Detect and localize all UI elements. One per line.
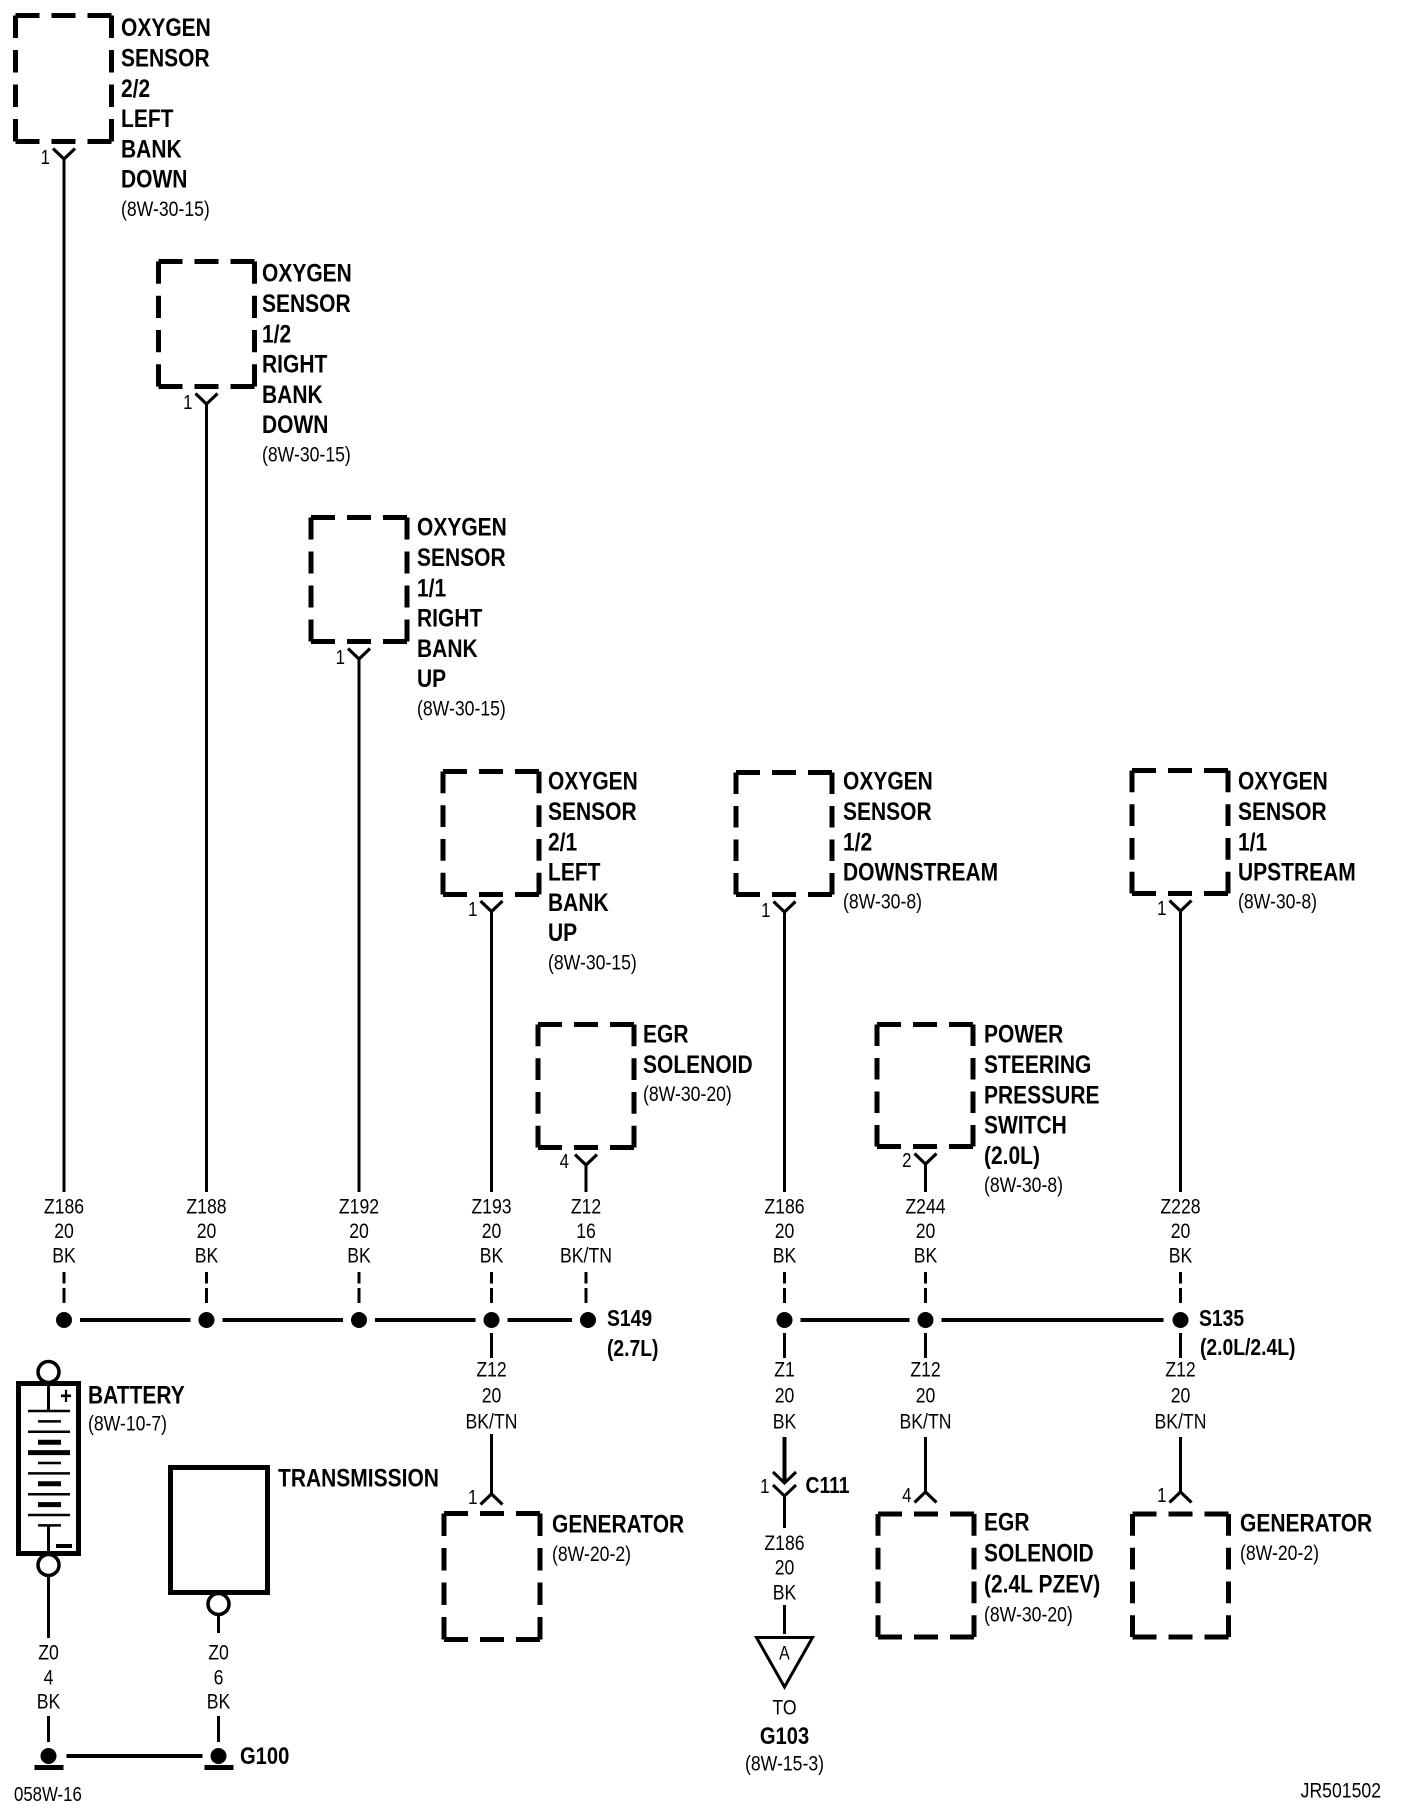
- svg-text:1/2: 1/2: [843, 828, 872, 856]
- EGR solenoid 2.4L PZEV label: [984, 1508, 1100, 1627]
- svg-text:20: 20: [54, 1220, 74, 1244]
- connector at oxygen sensor 2/1 left bank up: [481, 901, 503, 912]
- power steering pressure switch label: [984, 1020, 1099, 1197]
- connector at oxygen sensor 1/1 upstream: [1170, 901, 1192, 912]
- oxygen sensor 1/2 right bank down label: [262, 259, 352, 467]
- wire Z186 below C111: [783, 1496, 786, 1528]
- svg-text:Z186: Z186: [44, 1195, 84, 1219]
- svg-text:(8W-20-2): (8W-20-2): [1240, 1541, 1319, 1565]
- svg-text:4: 4: [44, 1666, 54, 1690]
- svg-text:POWER: POWER: [984, 1020, 1064, 1048]
- connector at EGR solenoid: [575, 1155, 597, 1166]
- svg-text:SENSOR: SENSOR: [1238, 797, 1327, 825]
- connector at power steering pressure switch: [915, 1154, 937, 1165]
- svg-text:Z186: Z186: [764, 1532, 804, 1556]
- wire segment Z12 to generator below bus: [1179, 1333, 1182, 1358]
- sheet number 058W-16: [14, 1783, 82, 1806]
- svg-text:OXYGEN: OXYGEN: [1238, 767, 1328, 795]
- svg-text:STEERING: STEERING: [984, 1050, 1091, 1078]
- svg-text:1: 1: [1157, 1484, 1166, 1507]
- wire Z186 from oxygen sensor 1/2 downstream: [783, 912, 786, 1192]
- generator (left) label: [552, 1510, 684, 1566]
- connector at oxygen sensor 1/2 downstream: [774, 902, 796, 913]
- svg-text:6: 6: [214, 1666, 224, 1690]
- wire Z12 down to EGR solenoid 2.4L: [924, 1437, 927, 1492]
- svg-text:(8W-30-20): (8W-30-20): [643, 1083, 732, 1107]
- junction dot at Z193: [484, 1312, 500, 1328]
- svg-text:BK: BK: [195, 1244, 219, 1268]
- svg-text:1/1: 1/1: [417, 574, 446, 602]
- svg-text:BK: BK: [347, 1244, 371, 1268]
- pin 1 of oxygen sensor 1/1 upstream: [1157, 897, 1166, 920]
- svg-text:+: +: [60, 1382, 72, 1409]
- pin 4 label EGR solenoid 2.4L: [902, 1484, 911, 1507]
- wire Z0 from transmission: [217, 1615, 220, 1633]
- wire Z193 from oxygen sensor 2/1 left bank up: [490, 912, 493, 1193]
- svg-text:2/2: 2/2: [121, 74, 150, 102]
- node TO G103 label: [745, 1696, 824, 1776]
- svg-text:(2.0L): (2.0L): [984, 1141, 1040, 1169]
- connector at oxygen sensor 1/1 right bank up: [348, 649, 370, 660]
- svg-text:BK: BK: [207, 1690, 231, 1714]
- battery minus sign: [56, 1544, 72, 1548]
- wire segment Z12 to EGR below bus: [924, 1333, 927, 1358]
- ground G100 symbol: [205, 1748, 234, 1770]
- splice bus S149 wire segments: [80, 1318, 572, 1322]
- svg-text:Z193: Z193: [471, 1195, 511, 1219]
- wire segment to off-page triangle: [783, 1605, 786, 1634]
- svg-text:SENSOR: SENSOR: [417, 543, 506, 571]
- svg-text:(8W-30-20): (8W-30-20): [984, 1603, 1073, 1627]
- svg-text:OXYGEN: OXYGEN: [843, 767, 933, 795]
- in-line connector C111 (double chevron): [773, 1472, 796, 1496]
- svg-text:20: 20: [916, 1220, 936, 1244]
- wire Z0 from battery: [47, 1577, 50, 1638]
- svg-text:1: 1: [760, 1475, 769, 1498]
- svg-text:(8W-30-15): (8W-30-15): [262, 443, 351, 467]
- svg-text:BATTERY: BATTERY: [88, 1381, 185, 1409]
- svg-text:BK: BK: [37, 1690, 61, 1714]
- junction dot at Z186 col 1: [56, 1312, 72, 1328]
- battery internal plates: [28, 1383, 70, 1553]
- splice bus S135 wire segments: [801, 1318, 1164, 1322]
- pin 2 of power steering pressure switch: [902, 1149, 911, 1172]
- svg-text:2/1: 2/1: [548, 828, 577, 856]
- svg-text:Z0: Z0: [38, 1641, 59, 1665]
- svg-text:1: 1: [468, 898, 477, 921]
- transmission terminal circle: [208, 1594, 229, 1615]
- pin 1 label at C111: [760, 1475, 769, 1498]
- oxygen sensor 2/1 left bank up label: [548, 767, 638, 975]
- wire Z244 from power steering pressure switch: [924, 1164, 927, 1192]
- svg-text:(8W-30-15): (8W-30-15): [548, 951, 637, 975]
- splice S149 end dot: [580, 1312, 596, 1328]
- svg-text:DOWN: DOWN: [121, 165, 187, 193]
- pin 1 label generator left: [468, 1486, 477, 1509]
- svg-text:BK: BK: [1169, 1244, 1193, 1268]
- svg-text:G103: G103: [760, 1722, 809, 1749]
- svg-text:TO: TO: [772, 1696, 796, 1720]
- svg-text:(8W-30-8): (8W-30-8): [843, 890, 922, 914]
- svg-text:BK/TN: BK/TN: [900, 1410, 952, 1434]
- svg-text:UP: UP: [417, 664, 446, 692]
- splice S135 end dot: [1173, 1312, 1189, 1328]
- junction dot at Z192: [351, 1312, 367, 1328]
- svg-text:BK/TN: BK/TN: [560, 1244, 612, 1268]
- svg-text:OXYGEN: OXYGEN: [548, 767, 638, 795]
- ground symbol at battery: [35, 1748, 64, 1770]
- svg-text:A: A: [779, 1642, 790, 1664]
- svg-text:Z12: Z12: [571, 1195, 601, 1219]
- wire segment Z186 right into bus: [783, 1272, 786, 1303]
- svg-text:(8W-30-15): (8W-30-15): [121, 197, 210, 221]
- label wire Z12 16 BK/TN: [560, 1195, 612, 1268]
- svg-text:Z1: Z1: [774, 1358, 795, 1382]
- wire segment battery to ground: [47, 1716, 50, 1742]
- wire segment Z188 into bus: [205, 1272, 208, 1303]
- oxygen sensor 1/2 right bank down (dashed box): [159, 262, 255, 387]
- svg-text:16: 16: [576, 1220, 596, 1244]
- EGR solenoid 2.4L PZEV dashed box: [878, 1514, 974, 1637]
- ground G100 label: [240, 1742, 289, 1769]
- svg-text:G100: G100: [240, 1742, 289, 1769]
- svg-text:SENSOR: SENSOR: [262, 289, 351, 317]
- wire Z188 from oxygen sensor 1/2 right bank down: [205, 404, 208, 1192]
- pin 1 of oxygen sensor 1/1 right bank up: [336, 646, 345, 669]
- svg-text:Z192: Z192: [339, 1195, 379, 1219]
- transmission label: [278, 1464, 439, 1492]
- oxygen sensor 2/2 left bank down label: [121, 13, 211, 221]
- EGR solenoid label (left section): [643, 1020, 753, 1107]
- svg-text:SENSOR: SENSOR: [548, 797, 637, 825]
- label wire Z12 20 BK/TN (to EGR 2.4L): [900, 1358, 952, 1434]
- pin 1 label generator right: [1157, 1484, 1166, 1507]
- svg-text:BK: BK: [773, 1410, 797, 1434]
- svg-text:20: 20: [916, 1384, 936, 1408]
- node S149 label: [607, 1307, 658, 1362]
- svg-text:(8W-30-15): (8W-30-15): [417, 697, 506, 721]
- pin 1 of oxygen sensor 2/1 left bank up: [468, 898, 477, 921]
- wire Z1 down to C111: [783, 1437, 787, 1481]
- svg-text:1: 1: [41, 146, 50, 169]
- svg-text:20: 20: [482, 1384, 502, 1408]
- wire segment Z193 into bus: [490, 1272, 493, 1303]
- svg-text:20: 20: [775, 1384, 795, 1408]
- label wire Z186 20 BK (below C111): [764, 1532, 804, 1605]
- node S135 label: [1199, 1307, 1295, 1361]
- svg-text:20: 20: [349, 1220, 369, 1244]
- svg-text:LEFT: LEFT: [121, 104, 173, 132]
- drawing number JR501502: [1301, 1779, 1381, 1803]
- svg-text:GENERATOR: GENERATOR: [1240, 1509, 1372, 1537]
- battery B1 box: [19, 1384, 79, 1554]
- wire Z186 from oxygen sensor 2/2: [63, 159, 66, 1192]
- label wire Z12 20 BK/TN (below S149): [466, 1358, 518, 1434]
- battery B1 terminal circle (top): [38, 1362, 59, 1383]
- svg-text:(8W-30-8): (8W-30-8): [1238, 890, 1317, 914]
- wire segment Z186 into bus: [63, 1272, 66, 1303]
- ground bus wire to G100: [67, 1754, 203, 1758]
- svg-text:Z12: Z12: [910, 1358, 940, 1382]
- svg-text:4: 4: [902, 1484, 911, 1507]
- connector pin 1 at generator (right): [1170, 1492, 1192, 1503]
- svg-text:SOLENOID: SOLENOID: [984, 1539, 1094, 1567]
- svg-text:1: 1: [761, 899, 770, 922]
- label wire Z186 20 BK (col 6): [764, 1195, 804, 1268]
- svg-text:(8W-10-7): (8W-10-7): [88, 1412, 167, 1436]
- svg-text:DOWN: DOWN: [262, 410, 328, 438]
- svg-text:BK: BK: [773, 1244, 797, 1268]
- wire Z192 from oxygen sensor 1/1 right bank up: [358, 659, 361, 1192]
- pin 1 of oxygen sensor 1/2 right bank down: [183, 391, 192, 414]
- svg-text:BK: BK: [480, 1244, 504, 1268]
- svg-text:4: 4: [560, 1150, 569, 1173]
- transmission box: [171, 1468, 268, 1593]
- svg-text:058W-16: 058W-16: [14, 1783, 82, 1806]
- svg-text:BANK: BANK: [262, 380, 323, 408]
- svg-text:Z12: Z12: [1165, 1358, 1195, 1382]
- svg-text:EGR: EGR: [984, 1508, 1030, 1536]
- svg-text:(2.7L): (2.7L): [607, 1337, 658, 1362]
- svg-text:20: 20: [775, 1556, 795, 1580]
- connector at oxygen sensor 1/2 right bank down: [196, 394, 218, 405]
- svg-text:UP: UP: [548, 918, 577, 946]
- battery label: [88, 1381, 185, 1436]
- svg-text:OXYGEN: OXYGEN: [262, 259, 352, 287]
- svg-text:BK/TN: BK/TN: [466, 1410, 518, 1434]
- label wire Z0 4 BK: [37, 1641, 61, 1714]
- svg-text:SENSOR: SENSOR: [121, 44, 210, 72]
- svg-text:S135: S135: [1199, 1307, 1244, 1332]
- svg-text:BK/TN: BK/TN: [1155, 1410, 1207, 1434]
- label wire Z244 20 BK: [905, 1195, 945, 1268]
- off-page reference triangle A: [757, 1638, 813, 1688]
- svg-text:EGR: EGR: [643, 1020, 689, 1048]
- wire Z12 from EGR solenoid: [585, 1165, 588, 1192]
- label wire Z228 20 BK: [1160, 1195, 1200, 1268]
- svg-text:SOLENOID: SOLENOID: [643, 1050, 753, 1078]
- power steering pressure switch (dashed box): [877, 1025, 973, 1147]
- svg-text:BK: BK: [773, 1581, 797, 1605]
- svg-text:BK: BK: [914, 1244, 938, 1268]
- svg-text:(2.4L PZEV): (2.4L PZEV): [984, 1570, 1100, 1598]
- label wire Z1 20 BK: [773, 1358, 797, 1434]
- svg-text:SWITCH: SWITCH: [984, 1111, 1067, 1139]
- svg-text:BANK: BANK: [417, 634, 478, 662]
- svg-text:(8W-30-8): (8W-30-8): [984, 1174, 1063, 1198]
- wire segment transmission to G100: [217, 1716, 220, 1742]
- svg-text:BANK: BANK: [121, 135, 182, 163]
- svg-text:RIGHT: RIGHT: [262, 350, 327, 378]
- svg-text:SENSOR: SENSOR: [843, 797, 932, 825]
- oxygen sensor 1/2 downstream label: [843, 767, 998, 914]
- svg-text:UPSTREAM: UPSTREAM: [1238, 858, 1356, 886]
- label wire Z188 20 BK: [186, 1195, 226, 1268]
- label wire Z192 20 BK: [339, 1195, 379, 1268]
- svg-text:Z244: Z244: [905, 1195, 945, 1219]
- label wire Z0 6 BK: [207, 1641, 231, 1714]
- pin 1 of oxygen sensor 1/2 downstream: [761, 899, 770, 922]
- junction dot at Z186 right: [777, 1312, 793, 1328]
- pin 1 of oxygen sensor 2/2: [41, 146, 50, 169]
- generator (right) dashed box: [1133, 1514, 1229, 1637]
- svg-text:PRESSURE: PRESSURE: [984, 1081, 1099, 1109]
- wire Z12 down to generator connector (left): [490, 1434, 493, 1494]
- svg-text:TRANSMISSION: TRANSMISSION: [278, 1464, 439, 1492]
- wire segment Z12 into bus: [585, 1272, 588, 1303]
- svg-text:20: 20: [1171, 1220, 1191, 1244]
- label wire Z186 20 BK (col 1): [44, 1195, 84, 1268]
- wire segment Z12 below S149 below bus: [490, 1333, 493, 1358]
- svg-text:1: 1: [336, 646, 345, 669]
- oxygen sensor 1/1 upstream (dashed box): [1132, 771, 1228, 894]
- connector pin 4 at EGR solenoid 2.4L: [915, 1492, 937, 1503]
- svg-text:Z186: Z186: [764, 1195, 804, 1219]
- EGR solenoid (dashed box, left section): [538, 1025, 634, 1148]
- svg-text:LEFT: LEFT: [548, 858, 600, 886]
- svg-text:Z188: Z188: [186, 1195, 226, 1219]
- svg-text:1: 1: [183, 391, 192, 414]
- label wire Z12 20 BK/TN (to generator): [1155, 1358, 1207, 1434]
- junction dot at Z244: [918, 1312, 934, 1328]
- oxygen sensor 1/2 downstream (dashed box): [736, 773, 832, 895]
- generator (right) label: [1240, 1509, 1372, 1565]
- svg-text:S149: S149: [607, 1307, 652, 1332]
- battery plus sign: [60, 1382, 72, 1409]
- wire segment Z1 below bus: [783, 1333, 786, 1358]
- svg-text:JR501502: JR501502: [1301, 1779, 1381, 1803]
- svg-text:20: 20: [197, 1220, 217, 1244]
- svg-text:C111: C111: [806, 1474, 850, 1499]
- svg-text:GENERATOR: GENERATOR: [552, 1510, 684, 1538]
- svg-text:DOWNSTREAM: DOWNSTREAM: [843, 858, 998, 886]
- svg-text:1: 1: [468, 1486, 477, 1509]
- svg-text:20: 20: [775, 1220, 795, 1244]
- svg-text:OXYGEN: OXYGEN: [121, 13, 211, 41]
- svg-text:(8W-20-2): (8W-20-2): [552, 1542, 631, 1566]
- svg-text:20: 20: [1171, 1384, 1191, 1408]
- wire Z228 from oxygen sensor 1/1 upstream: [1179, 911, 1182, 1192]
- pin 4 of EGR solenoid: [560, 1150, 569, 1173]
- svg-text:1: 1: [1157, 897, 1166, 920]
- svg-text:Z228: Z228: [1160, 1195, 1200, 1219]
- svg-text:1/2: 1/2: [262, 320, 291, 348]
- svg-text:Z0: Z0: [208, 1641, 229, 1665]
- svg-text:BK: BK: [52, 1244, 76, 1268]
- battery terminal circle (bottom): [38, 1555, 59, 1576]
- svg-text:(2.0L/2.4L): (2.0L/2.4L): [1200, 1336, 1295, 1361]
- svg-text:RIGHT: RIGHT: [417, 604, 482, 632]
- connector C111 name: [806, 1474, 850, 1499]
- junction dot at Z188: [199, 1312, 215, 1328]
- wire segment Z244 into bus: [924, 1272, 927, 1303]
- connector pin 1 at generator (left): [481, 1494, 503, 1505]
- svg-text:1/1: 1/1: [1238, 828, 1267, 856]
- label wire Z193 20 BK: [471, 1195, 511, 1268]
- oxygen sensor 2/1 left bank up (dashed box): [443, 772, 539, 895]
- generator (left) dashed box: [444, 1514, 540, 1640]
- oxygen sensor 2/2 left bank down (dashed box): [16, 16, 112, 142]
- oxygen sensor 1/1 upstream label: [1238, 767, 1356, 914]
- wire segment Z228 into bus: [1179, 1272, 1182, 1303]
- wire segment Z192 into bus: [358, 1272, 361, 1303]
- svg-text:(8W-15-3): (8W-15-3): [745, 1752, 824, 1776]
- oxygen sensor 1/1 right bank up (dashed box): [311, 518, 407, 642]
- svg-text:2: 2: [902, 1149, 911, 1172]
- svg-text:BANK: BANK: [548, 888, 609, 916]
- wire Z12 down to generator (right): [1179, 1437, 1182, 1492]
- svg-text:OXYGEN: OXYGEN: [417, 513, 507, 541]
- connector at oxygen sensor 2/2: [53, 149, 75, 160]
- svg-text:Z12: Z12: [476, 1358, 506, 1382]
- svg-text:20: 20: [482, 1220, 502, 1244]
- oxygen sensor 1/1 right bank up label: [417, 513, 507, 721]
